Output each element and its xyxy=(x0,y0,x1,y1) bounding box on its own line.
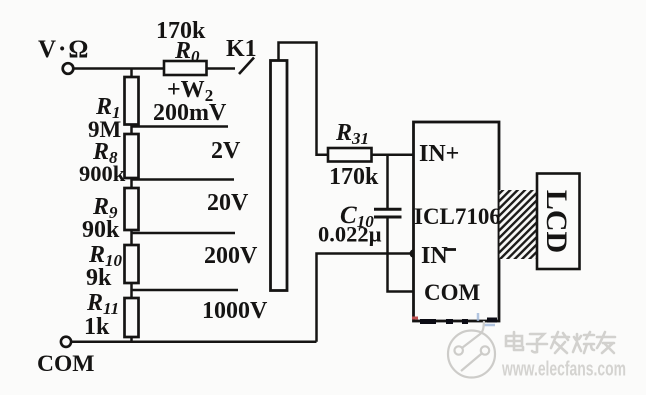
wire cap top branch xyxy=(386,155,389,208)
watermark text 电子发烧友 (drawn strokes) xyxy=(506,332,615,353)
resistor R8 xyxy=(125,134,139,178)
svg-text:IN+: IN+ xyxy=(419,141,459,167)
wire COM bottom (1000V tap) xyxy=(72,341,317,344)
svg-text:90k: 90k xyxy=(82,217,120,243)
svg-text:IN: IN xyxy=(421,243,448,269)
wire wafer wiper to R31 xyxy=(279,43,329,155)
svg-text:9k: 9k xyxy=(86,265,112,291)
wire R0 to K1 xyxy=(207,67,236,70)
svg-text:COM: COM xyxy=(424,280,481,305)
svg-text:0.022µ: 0.022µ xyxy=(318,222,382,247)
svg-text:LCD: LCD xyxy=(540,190,573,253)
wire input top xyxy=(74,67,164,70)
op-amp U1 ICL7106 xyxy=(414,122,500,321)
capacitor C10 xyxy=(374,209,402,217)
svg-text:ICL7106: ICL7106 xyxy=(414,204,501,229)
wire IN- net xyxy=(317,254,414,342)
wire R31 to IN+ xyxy=(372,154,414,157)
switch wafer (range selector) xyxy=(271,61,288,291)
resistor R0 xyxy=(164,61,207,75)
terminal V·Ω xyxy=(63,63,74,74)
wire R8-R9 junction xyxy=(130,178,133,188)
terminal COM xyxy=(61,337,71,347)
wire cap bottom to COM pin xyxy=(388,219,414,292)
svg-text:900k: 900k xyxy=(79,161,126,186)
switch K1 xyxy=(239,58,254,75)
node 2V tap xyxy=(132,178,235,181)
resistor R1 xyxy=(125,77,139,125)
svg-text:www.elecfans.com: www.elecfans.com xyxy=(501,359,626,381)
wire box bottom smudges (scan artifacts) xyxy=(420,320,497,322)
connector hatch ICL7106-LCD xyxy=(500,190,537,259)
wire R1-R8 junction xyxy=(130,125,133,135)
svg-text:R31: R31 xyxy=(335,120,369,148)
resistor R11 xyxy=(125,298,139,337)
resistor R31 xyxy=(328,148,372,162)
svg-text:2V: 2V xyxy=(211,138,241,164)
svg-text:20V: 20V xyxy=(207,190,249,216)
node 200mV tap xyxy=(132,125,229,128)
wire R9-R10 junction xyxy=(130,230,133,245)
svg-text:V·Ω: V·Ω xyxy=(38,36,90,63)
svg-text:1000V: 1000V xyxy=(202,298,268,324)
svg-text:200V: 200V xyxy=(204,243,258,269)
resistor R9 xyxy=(125,188,139,230)
resistor R10 xyxy=(125,245,139,283)
node 200V tap xyxy=(132,289,239,292)
display LCD box xyxy=(537,174,580,270)
watermark logo circle xyxy=(448,321,495,378)
wire R1 top stub xyxy=(130,69,133,78)
junction IN- dot xyxy=(410,249,419,258)
svg-text:170k: 170k xyxy=(329,164,379,190)
svg-text:COM: COM xyxy=(37,351,94,377)
wire R11 bottom stub xyxy=(130,337,133,342)
svg-text:1k: 1k xyxy=(84,314,110,340)
wire R10-R11 junction xyxy=(130,283,133,298)
node 20V tap xyxy=(132,232,236,235)
svg-text:200mV: 200mV xyxy=(153,100,227,126)
svg-text:K1: K1 xyxy=(226,36,257,62)
